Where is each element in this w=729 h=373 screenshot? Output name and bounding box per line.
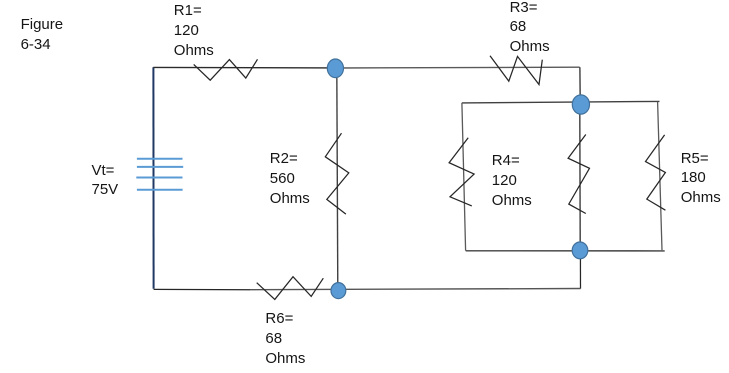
resistor R5 (right leg of parallel box) — [646, 135, 666, 210]
label: resistor R3 value — [510, 0, 550, 57]
resistor R3 — [490, 56, 542, 85]
wire: box right edge — [658, 102, 662, 250]
wire: box left edge — [462, 103, 466, 251]
label: resistor R2 value — [270, 149, 310, 208]
resistor R2 — [325, 133, 349, 214]
wire: top-left segment — [153, 66, 336, 69]
resistor R6 — [257, 277, 324, 300]
resistor R4 (left leg of parallel box) — [449, 138, 474, 206]
wire: box bottom edge — [466, 250, 665, 252]
node B (top of parallel box) — [572, 95, 589, 114]
wire: box top edge — [462, 101, 660, 103]
node C (bottom of parallel box) — [572, 242, 588, 259]
label: resistor R4 value — [492, 151, 532, 210]
wire: left branch vertical (source) — [152, 67, 154, 288]
wire: right vertical drop to node B — [579, 67, 581, 103]
label: resistor R5 value — [681, 149, 721, 208]
label: resistor R6 value — [265, 309, 305, 368]
label: figure caption — [21, 15, 64, 54]
wire: bottom rail — [154, 288, 250, 290]
resistor R1 — [194, 59, 258, 80]
wire: middle branch inside box — [579, 104, 581, 250]
wire: below box to bottom rail — [579, 250, 581, 289]
node D (bottom of R2 branch) — [331, 283, 346, 299]
wire: top-right segment — [336, 66, 580, 69]
resistor (unlabeled, middle branch) — [568, 135, 589, 214]
wire: R2 middle branch vertical — [337, 68, 338, 290]
label: resistor R1 value — [174, 1, 214, 60]
node A (top of R2 branch) — [327, 59, 343, 78]
label: source Vt value — [92, 162, 119, 200]
battery Vt plates — [136, 159, 183, 190]
